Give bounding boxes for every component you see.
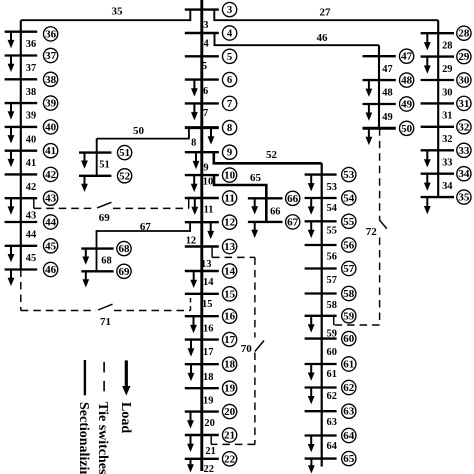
svg-text:10: 10 bbox=[224, 170, 235, 182]
bus 33 bar bbox=[421, 149, 454, 151]
node 56 bbox=[342, 238, 356, 252]
svg-text:42: 42 bbox=[45, 169, 56, 181]
node 62 bbox=[342, 380, 356, 394]
bus 52 bar bbox=[79, 175, 111, 177]
bus 36 bar bbox=[5, 31, 38, 33]
load arrow bus 33 bbox=[424, 150, 431, 167]
wire branch 46 (bus4 to bus47) bbox=[215, 33, 380, 45]
svg-text:68: 68 bbox=[101, 256, 111, 267]
node 4 bbox=[222, 26, 236, 40]
svg-text:65: 65 bbox=[250, 172, 262, 184]
bus 7 bar bbox=[185, 102, 219, 104]
tie switch 72 dashed vertical upper bbox=[379, 128, 381, 220]
bus 20 bar bbox=[185, 410, 219, 412]
load arrow bus 40 bbox=[8, 127, 15, 143]
svg-text:14: 14 bbox=[203, 277, 213, 288]
bus 66 bar bbox=[248, 197, 283, 199]
tie switch 70 dashed top horizontal bbox=[212, 256, 255, 258]
bus 43 bar bbox=[5, 197, 38, 199]
node 22 bbox=[222, 452, 236, 466]
load arrow bus 54 bbox=[308, 198, 315, 215]
svg-text:35: 35 bbox=[112, 6, 124, 18]
load arrow bus 69 bbox=[82, 271, 89, 287]
svg-text:Sectionalizing switches: Sectionalizing switches bbox=[76, 402, 91, 474]
svg-text:60: 60 bbox=[327, 347, 337, 358]
load arrow bus 34 bbox=[424, 174, 431, 191]
tie switch 72 dashed vertical lower bbox=[379, 238, 381, 326]
bus 49 bar bbox=[363, 103, 396, 105]
node 10 bbox=[222, 168, 236, 182]
bus 15 bar bbox=[185, 293, 219, 295]
svg-text:7: 7 bbox=[227, 98, 233, 110]
wire tie 70 stub at bus13 bbox=[211, 247, 213, 258]
load arrow bus 51 bbox=[81, 153, 88, 169]
svg-text:3: 3 bbox=[203, 20, 208, 31]
node 5 bbox=[222, 49, 236, 63]
wire branch 67 (bus12 to bus68) bbox=[97, 222, 191, 271]
node 65 bbox=[342, 451, 356, 465]
bus 69 bar bbox=[81, 270, 113, 272]
wire column vertical bus53-65 bbox=[321, 163, 323, 458]
bus 53 bar bbox=[305, 173, 337, 175]
bus 31 bar bbox=[421, 102, 454, 104]
load arrow bus 17 bbox=[188, 340, 195, 357]
svg-text:47: 47 bbox=[401, 51, 413, 63]
svg-text:55: 55 bbox=[327, 226, 337, 237]
node 47 bbox=[399, 49, 413, 63]
bus 4 bar bbox=[185, 32, 219, 34]
node 66 bbox=[286, 191, 300, 205]
legend sectionalizing switch symbol bbox=[84, 360, 86, 395]
node 67 bbox=[286, 215, 300, 229]
node 39 bbox=[43, 96, 57, 110]
bus 22 bar bbox=[185, 458, 219, 460]
node 12 bbox=[222, 215, 236, 229]
load arrow bus 28 bbox=[424, 33, 431, 50]
svg-text:38: 38 bbox=[45, 74, 56, 86]
node 31 bbox=[457, 96, 471, 110]
wire branch 65 (bus10 to bus66) thick bbox=[214, 175, 266, 222]
svg-text:41: 41 bbox=[45, 145, 56, 157]
svg-text:64: 64 bbox=[327, 441, 337, 452]
bus 48 bar bbox=[363, 79, 396, 81]
svg-text:66: 66 bbox=[287, 193, 299, 205]
svg-text:29: 29 bbox=[442, 64, 452, 75]
svg-text:59: 59 bbox=[343, 310, 354, 322]
svg-text:43: 43 bbox=[26, 210, 36, 221]
bus 10 bar bbox=[185, 174, 219, 176]
load arrow bus 7 bbox=[191, 103, 198, 120]
svg-text:33: 33 bbox=[442, 158, 452, 169]
node 43 bbox=[43, 191, 57, 205]
bus 47 bar bbox=[363, 55, 396, 57]
tie switch 71 dashed left part bbox=[21, 310, 96, 312]
svg-text:40: 40 bbox=[26, 134, 36, 145]
node 51 bbox=[117, 145, 131, 159]
svg-text:55: 55 bbox=[343, 216, 354, 228]
wire column vertical bus51-52 bbox=[96, 139, 98, 176]
legend tie switch symbol bbox=[103, 362, 105, 394]
node 29 bbox=[457, 49, 471, 63]
bus 39 bar bbox=[5, 102, 38, 104]
svg-text:61: 61 bbox=[327, 369, 337, 380]
svg-text:8: 8 bbox=[227, 122, 232, 134]
load arrow bus 50 bbox=[366, 128, 373, 145]
wire column stub below bus65 bbox=[321, 459, 323, 467]
node 19 bbox=[222, 381, 236, 395]
svg-text:29: 29 bbox=[458, 51, 469, 63]
tie switch 71 blade bbox=[98, 304, 113, 310]
svg-text:8: 8 bbox=[191, 137, 196, 148]
load arrow bus 62 bbox=[308, 388, 315, 405]
svg-text:12: 12 bbox=[224, 217, 235, 229]
tie switch 70 dashed bottom horizontal bbox=[211, 443, 255, 445]
svg-text:22: 22 bbox=[204, 464, 214, 474]
node 17 bbox=[222, 332, 236, 346]
node 33 bbox=[457, 143, 471, 157]
svg-text:57: 57 bbox=[343, 263, 355, 275]
svg-text:Tie switches: Tie switches bbox=[95, 402, 110, 474]
svg-text:Load: Load bbox=[118, 402, 133, 433]
svg-text:44: 44 bbox=[45, 217, 57, 229]
bus 6 bar bbox=[185, 78, 219, 80]
node 36 bbox=[43, 27, 57, 41]
svg-text:21: 21 bbox=[205, 446, 215, 457]
node 59 bbox=[342, 309, 356, 323]
svg-text:46: 46 bbox=[45, 264, 57, 276]
wire column vertical bus47-50 bbox=[378, 45, 380, 128]
bus 62 bar bbox=[305, 386, 337, 388]
node 54 bbox=[342, 191, 356, 205]
svg-text:56: 56 bbox=[327, 252, 337, 263]
svg-text:30: 30 bbox=[442, 87, 452, 98]
node 61 bbox=[342, 357, 356, 371]
svg-text:11: 11 bbox=[224, 193, 235, 205]
svg-text:27: 27 bbox=[320, 6, 332, 18]
svg-text:48: 48 bbox=[401, 75, 412, 87]
load arrow bus 45 bbox=[8, 246, 15, 262]
tie switch 72 blade bbox=[379, 220, 387, 229]
svg-text:64: 64 bbox=[343, 430, 355, 442]
svg-text:69: 69 bbox=[99, 212, 111, 224]
svg-text:49: 49 bbox=[382, 112, 392, 123]
bus 5 bar bbox=[185, 55, 219, 57]
tie switch 71 dashed right part bbox=[114, 310, 191, 312]
wire branch 27 (bus3 to right column) bbox=[214, 10, 438, 21]
svg-text:28: 28 bbox=[458, 28, 469, 40]
svg-text:20: 20 bbox=[204, 418, 214, 429]
bus 8 bar bbox=[185, 126, 219, 129]
load arrow bus 55 bbox=[308, 221, 315, 238]
node 15 bbox=[222, 287, 236, 301]
tie switch 71 dashed stub to bus15 bbox=[190, 294, 192, 311]
load arrow bus 39 bbox=[8, 103, 15, 120]
wire tie 70 stub at bus21 bbox=[210, 435, 212, 444]
wire branch 50 (bus8 to bus51) bbox=[97, 128, 189, 139]
svg-text:59: 59 bbox=[327, 329, 337, 340]
load arrow bus 10 bbox=[191, 175, 198, 192]
svg-text:37: 37 bbox=[45, 50, 57, 62]
svg-text:57: 57 bbox=[327, 275, 337, 286]
bus 35 bar bbox=[421, 196, 454, 198]
load arrow bus 68 bbox=[82, 249, 89, 265]
load arrow bus 59 bbox=[308, 316, 315, 333]
svg-text:62: 62 bbox=[327, 391, 337, 402]
node 9 bbox=[222, 145, 236, 159]
load arrow bus 49 bbox=[366, 104, 373, 121]
bus 54 bar bbox=[305, 197, 337, 199]
load arrow bus 14 bbox=[190, 271, 197, 288]
bus 46 bar bbox=[5, 268, 38, 270]
svg-text:52: 52 bbox=[119, 170, 130, 182]
node 68 bbox=[117, 241, 131, 255]
svg-text:32: 32 bbox=[442, 134, 452, 145]
svg-text:48: 48 bbox=[382, 88, 392, 99]
svg-text:61: 61 bbox=[343, 359, 354, 371]
node 53 bbox=[342, 167, 356, 181]
svg-text:51: 51 bbox=[99, 160, 109, 171]
svg-text:35: 35 bbox=[458, 192, 469, 204]
svg-text:19: 19 bbox=[203, 396, 213, 407]
wire branch 35 (bus3 to left column) bbox=[21, 10, 191, 21]
load arrow bus 21 bbox=[187, 435, 194, 452]
bus 64 bar bbox=[305, 434, 337, 436]
load arrow bus 65 bbox=[308, 459, 315, 474]
load arrow bus 6 bbox=[191, 80, 198, 97]
load arrow bus 67 bbox=[251, 222, 258, 238]
bus 12 bar bbox=[185, 221, 219, 223]
svg-text:17: 17 bbox=[224, 334, 236, 346]
node 50 bbox=[399, 121, 413, 135]
node 60 bbox=[342, 331, 356, 345]
bus 32 bar bbox=[421, 126, 454, 128]
svg-text:39: 39 bbox=[45, 98, 56, 110]
legend load arrow symbol bbox=[122, 360, 130, 395]
node 38 bbox=[43, 72, 57, 86]
bus 9 bar bbox=[185, 151, 219, 153]
wire left column vertical bus36-46 bbox=[20, 20, 22, 269]
svg-text:15: 15 bbox=[202, 299, 212, 310]
tie switch 70 dashed vertical upper bbox=[254, 257, 256, 337]
wire tie 69 stub at bus43 bbox=[33, 198, 35, 208]
load arrow bus 48 bbox=[366, 80, 373, 97]
svg-text:54: 54 bbox=[327, 203, 337, 214]
load arrow bus 41 bbox=[8, 151, 15, 168]
svg-text:39: 39 bbox=[26, 111, 36, 122]
wire right column vertical bus28-35 bbox=[437, 20, 439, 197]
load arrow bus 52 bbox=[81, 176, 88, 192]
node 32 bbox=[457, 120, 471, 134]
svg-text:31: 31 bbox=[442, 111, 452, 122]
load arrow bus 9 bbox=[193, 152, 200, 169]
wire main feeder bus1-22 vertical bbox=[200, 0, 203, 471]
svg-text:45: 45 bbox=[45, 240, 56, 252]
bus 37 bar bbox=[5, 54, 38, 56]
svg-text:4: 4 bbox=[203, 39, 208, 50]
svg-text:72: 72 bbox=[366, 226, 378, 238]
svg-text:50: 50 bbox=[133, 125, 145, 137]
svg-text:3: 3 bbox=[227, 4, 232, 16]
node 57 bbox=[342, 261, 356, 275]
node 37 bbox=[43, 48, 57, 62]
svg-text:12: 12 bbox=[186, 236, 196, 247]
bus 14 bar bbox=[185, 270, 219, 272]
node 8 bbox=[222, 120, 236, 134]
load arrow bus 29 bbox=[424, 57, 431, 74]
node 34 bbox=[457, 167, 471, 181]
bus 56 bar bbox=[305, 244, 337, 246]
load arrow bus 64 bbox=[308, 436, 315, 453]
load arrow bus 11 bbox=[191, 198, 198, 215]
svg-text:16: 16 bbox=[224, 311, 236, 323]
tie switch 69 dashed line right part bbox=[113, 207, 189, 209]
bus 67 bar bbox=[248, 221, 283, 223]
node 35 bbox=[457, 190, 471, 204]
svg-text:53: 53 bbox=[327, 182, 337, 193]
svg-text:28: 28 bbox=[442, 41, 452, 52]
bus 29 bar bbox=[421, 55, 454, 57]
node 6 bbox=[222, 72, 236, 86]
svg-text:19: 19 bbox=[224, 383, 235, 395]
svg-text:43: 43 bbox=[45, 193, 56, 205]
bus 63 bar bbox=[305, 410, 337, 412]
node 16 bbox=[222, 309, 236, 323]
bus 17 bar bbox=[185, 338, 219, 340]
load arrow bus 37 bbox=[8, 56, 15, 73]
bus 18 bar bbox=[185, 363, 219, 365]
bus 40 bar bbox=[5, 126, 38, 128]
node 11 bbox=[222, 191, 236, 205]
load arrow bus 8 bbox=[208, 128, 215, 145]
node 30 bbox=[457, 73, 471, 87]
svg-text:71: 71 bbox=[100, 316, 111, 328]
svg-text:16: 16 bbox=[203, 324, 213, 335]
svg-text:18: 18 bbox=[203, 372, 213, 383]
svg-text:52: 52 bbox=[266, 149, 278, 161]
bus 60 bar bbox=[305, 337, 337, 339]
load arrow bus 36 bbox=[8, 32, 15, 49]
svg-text:68: 68 bbox=[119, 243, 130, 255]
bus 55 bar bbox=[305, 220, 337, 222]
bus 51 bar bbox=[79, 151, 111, 153]
node 14 bbox=[222, 264, 236, 278]
bus 16 bar bbox=[185, 315, 219, 317]
load arrow bus 43 bbox=[8, 198, 15, 215]
load arrow bus 20 bbox=[187, 412, 194, 429]
svg-text:62: 62 bbox=[343, 382, 354, 394]
node 7 bbox=[222, 96, 236, 110]
node 28 bbox=[457, 26, 471, 40]
svg-text:41: 41 bbox=[26, 158, 36, 169]
bus 65 bar bbox=[305, 457, 337, 459]
load arrow bus 16 bbox=[190, 316, 197, 333]
bus 58 bar bbox=[305, 292, 337, 294]
svg-text:21: 21 bbox=[224, 430, 235, 442]
bus 3 bar bbox=[185, 8, 219, 10]
svg-text:67: 67 bbox=[140, 221, 152, 233]
bus 44 bar bbox=[5, 221, 38, 223]
node 21 bbox=[222, 428, 236, 442]
load arrow bus 66 bbox=[251, 198, 258, 214]
svg-text:66: 66 bbox=[270, 207, 280, 218]
svg-text:69: 69 bbox=[119, 266, 130, 278]
svg-text:36: 36 bbox=[26, 39, 36, 50]
bus 19 bar bbox=[185, 387, 219, 389]
svg-text:34: 34 bbox=[458, 168, 470, 180]
svg-text:42: 42 bbox=[26, 182, 36, 193]
wire tie 69 stub at bus11 bbox=[188, 198, 190, 208]
load arrow bus 12 bbox=[207, 222, 214, 239]
svg-text:38: 38 bbox=[26, 87, 36, 98]
bus 41 bar bbox=[5, 150, 38, 152]
bus 30 bar bbox=[421, 79, 454, 81]
svg-text:60: 60 bbox=[343, 333, 354, 345]
bus 38 bar bbox=[5, 78, 38, 80]
bus 68 bar bbox=[81, 247, 113, 249]
load arrow bus 22 bbox=[187, 459, 194, 473]
node 20 bbox=[222, 404, 236, 418]
load arrow bus 53 bbox=[308, 175, 315, 192]
svg-text:22: 22 bbox=[224, 453, 235, 465]
svg-text:9: 9 bbox=[203, 163, 208, 174]
svg-text:33: 33 bbox=[458, 145, 469, 157]
svg-text:9: 9 bbox=[227, 147, 232, 159]
tie switch 69 dashed line left part bbox=[34, 207, 96, 209]
svg-text:10: 10 bbox=[203, 177, 213, 188]
svg-text:31: 31 bbox=[458, 98, 469, 110]
bus 42 bar bbox=[5, 173, 38, 175]
node 42 bbox=[43, 167, 57, 181]
bus 59 bar bbox=[305, 315, 337, 317]
tie switch 70 dashed vertical lower bbox=[254, 353, 256, 445]
svg-text:44: 44 bbox=[26, 230, 36, 241]
node 55 bbox=[342, 214, 356, 228]
svg-text:53: 53 bbox=[343, 169, 354, 181]
svg-text:58: 58 bbox=[343, 288, 354, 300]
svg-text:13: 13 bbox=[224, 241, 235, 253]
svg-text:32: 32 bbox=[458, 121, 469, 133]
node 13 bbox=[222, 239, 236, 253]
node 63 bbox=[342, 404, 356, 418]
svg-text:47: 47 bbox=[382, 64, 392, 75]
tie switch 72 dashed horizontal to bus59 bbox=[334, 324, 380, 326]
svg-text:70: 70 bbox=[241, 343, 253, 355]
node 40 bbox=[43, 120, 57, 134]
svg-text:36: 36 bbox=[45, 28, 57, 40]
svg-text:5: 5 bbox=[227, 51, 232, 63]
svg-text:7: 7 bbox=[203, 108, 208, 119]
bus 13 bar bbox=[185, 245, 219, 247]
node 3 bbox=[222, 2, 236, 16]
svg-text:17: 17 bbox=[203, 347, 213, 358]
bus 28 bar bbox=[421, 32, 454, 34]
svg-text:49: 49 bbox=[401, 99, 412, 111]
svg-text:58: 58 bbox=[327, 300, 337, 311]
svg-text:37: 37 bbox=[26, 63, 36, 74]
svg-text:56: 56 bbox=[343, 240, 355, 252]
svg-text:65: 65 bbox=[343, 453, 354, 465]
tie switch 70 blade bbox=[255, 341, 264, 352]
node 58 bbox=[342, 286, 356, 300]
svg-text:40: 40 bbox=[45, 121, 56, 133]
svg-text:54: 54 bbox=[343, 193, 355, 205]
node 52 bbox=[117, 169, 131, 183]
svg-text:63: 63 bbox=[343, 406, 354, 418]
node 18 bbox=[222, 357, 236, 371]
node 44 bbox=[43, 215, 57, 229]
load arrow bus 46 bbox=[8, 270, 15, 287]
svg-text:63: 63 bbox=[327, 417, 337, 428]
